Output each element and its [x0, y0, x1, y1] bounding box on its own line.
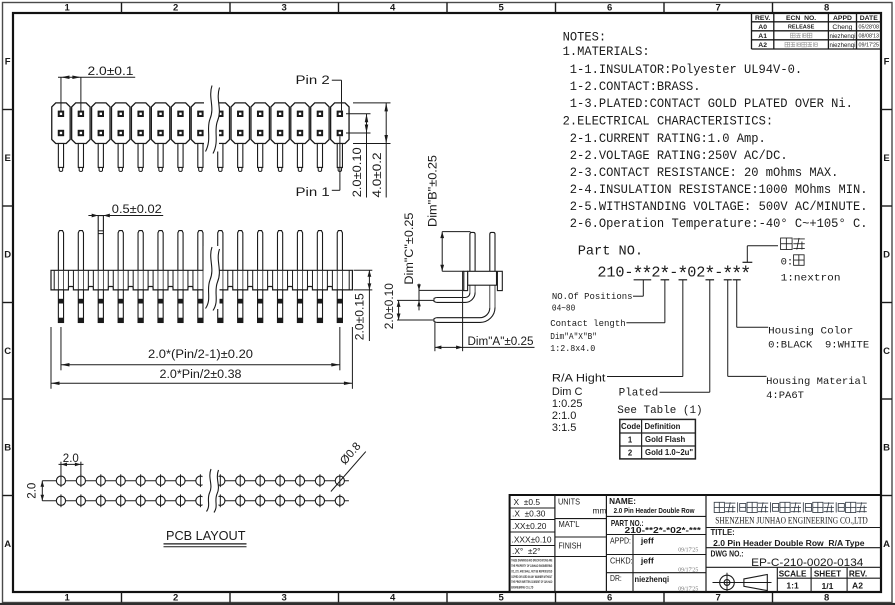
plated code table	[620, 419, 696, 459]
svg-text:2.0 Pin Header Double Row: 2.0 Pin Header Double Row	[614, 508, 695, 515]
leader Contact length	[626, 280, 669, 323]
svg-text:210-**2*-*02*-***: 210-**2*-*02*-***	[625, 526, 703, 535]
pin header top view body (15 positions)	[52, 103, 349, 144]
leader Housing Material	[724, 280, 767, 377]
svg-text:A: A	[4, 539, 11, 550]
svg-text:2-1.CURRENT RATING:1.0 Amp.: 2-1.CURRENT RATING:1.0 Amp.	[570, 131, 766, 146]
svg-text:4.0±0.2: 4.0±0.2	[372, 153, 384, 198]
svg-text:jeff: jeff	[640, 556, 654, 566]
dimension 2.0±0.10 (row spacing, top view right)	[346, 114, 371, 198]
svg-text:Gold 1.0~2u": Gold 1.0~2u"	[645, 448, 693, 457]
svg-text:.X° ±2°: .X° ±2°	[512, 546, 541, 556]
dimension Dim C ±0.25 (right-angle height)	[404, 213, 464, 311]
dimension 2.0 (row spacing)	[27, 481, 45, 501]
svg-text:Code: Code	[621, 422, 641, 431]
svg-text:1: 1	[628, 435, 633, 444]
svg-text:1: 1	[65, 593, 71, 604]
front view break lines	[204, 246, 220, 311]
svg-text:4:PA6T: 4:PA6T	[766, 390, 804, 402]
svg-text:3: 3	[282, 593, 287, 604]
projection symbol	[713, 573, 772, 592]
svg-text:niezhenqi: niezhenqi	[829, 33, 855, 40]
svg-text:A: A	[883, 539, 890, 550]
label Contact length Dim A X B	[550, 318, 625, 354]
svg-text:2-2.VOLTAGE RATING:250V AC/DC.: 2-2.VOLTAGE RATING:250V AC/DC.	[570, 148, 788, 163]
svg-text:RELEASE: RELEASE	[788, 25, 815, 31]
svg-text:COPIED OR USED IN ANY MANNER W: COPIED OR USED IN ANY MANNER WITHOUT	[511, 575, 552, 579]
svg-text:EP-C-210-0020-0134: EP-C-210-0020-0134	[751, 557, 863, 569]
svg-text:2.ELECTRICAL CHARACTERISTICS:: 2.ELECTRICAL CHARACTERISTICS:	[563, 113, 774, 128]
svg-text:MAT'L: MAT'L	[559, 520, 580, 529]
svg-text:2.0±0.10: 2.0±0.10	[384, 283, 396, 329]
dimension 0.5±0.02 (pin width)	[88, 204, 163, 217]
svg-text:1-2.CONTACT:BRASS.: 1-2.CONTACT:BRASS.	[570, 79, 701, 94]
svg-text:0: 0	[615, 263, 624, 281]
side view insulator body profile	[464, 271, 503, 290]
svg-text:.X ±0.30: .X ±0.30	[512, 509, 546, 519]
svg-text:A2: A2	[852, 581, 863, 591]
dimension 2.0*(Pin/2-1)±0.20	[61, 327, 340, 370]
label Pin 1 with leader	[296, 136, 340, 199]
svg-text:2-3.CONTACT RESISTANCE: 20 mOh: 2-3.CONTACT RESISTANCE: 20 mOhms MAX.	[570, 165, 839, 180]
svg-text:2-6.Operation Temperature:-40°: 2-6.Operation Temperature:-40° C~+105° C…	[570, 216, 868, 231]
svg-text:SHENZHEN JUNHAO ENGINEERING CO: SHENZHEN JUNHAO ENGINEERING CO.,LTD	[715, 517, 868, 527]
dimension 2.0±0.10 (tail spacing, side view)	[384, 283, 434, 329]
label Pin 2 with leader	[296, 75, 342, 110]
svg-text:CHKD:: CHKD:	[610, 555, 633, 565]
svg-text:Dim"A"±0.25: Dim"A"±0.25	[468, 336, 534, 348]
svg-text:F: F	[5, 57, 11, 68]
units matl finish cells	[558, 497, 606, 550]
svg-text:Dim C: Dim C	[552, 386, 583, 398]
svg-text:Gold Flash: Gold Flash	[645, 435, 686, 444]
svg-text:.XXX±0.10: .XXX±0.10	[512, 534, 552, 544]
svg-text:THE PRIOR WRITTEN CONSENT OF J: THE PRIOR WRITTEN CONSENT OF JUN HAO	[511, 580, 552, 584]
svg-text:1-3.PLATED:CONTACT GOLD PLATED: 1-3.PLATED:CONTACT GOLD PLATED OVER Ni.	[570, 96, 853, 111]
side view upper bent tail pin	[434, 292, 475, 302]
svg-text:2-4.INSULATION RESISTANCE:1000: 2-4.INSULATION RESISTANCE:1000 MOhms MIN…	[570, 182, 868, 197]
svg-text:Cheng: Cheng	[832, 24, 852, 31]
leader Ø0.8 (hole diameter)	[331, 440, 366, 491]
scale sheet rev cells	[779, 569, 867, 591]
leader NO.Of Positions	[633, 280, 651, 296]
svg-text:D: D	[883, 250, 890, 261]
svg-text:CO.,LTD. AND SHALL NOT BE REPR: CO.,LTD. AND SHALL NOT BE REPRODUCED	[511, 569, 552, 573]
svg-text:E: E	[5, 153, 11, 164]
title block grid	[510, 495, 881, 592]
svg-text:mm: mm	[593, 505, 607, 515]
svg-text:1:2.8x4.0: 1:2.8x4.0	[550, 343, 595, 354]
svg-text:09/17'25: 09/17'25	[678, 586, 698, 592]
leader mark type (CJK)	[743, 246, 779, 262]
svg-text:ENGINEERING CO.,LTD: ENGINEERING CO.,LTD	[511, 585, 533, 589]
svg-text:Housing Material: Housing Material	[766, 376, 867, 388]
svg-text:ECN NO.: ECN NO.	[786, 15, 816, 22]
svg-text:APPD:: APPD:	[610, 535, 631, 545]
svg-text:C: C	[883, 346, 890, 357]
svg-text:C: C	[4, 346, 11, 357]
svg-text:Dim"B"±0.25: Dim"B"±0.25	[428, 155, 440, 227]
svg-text:niezhenqi: niezhenqi	[829, 42, 855, 49]
disclaimer small print	[511, 559, 552, 590]
svg-text:2:1.0: 2:1.0	[552, 410, 576, 422]
svg-text:2.0: 2.0	[63, 453, 79, 465]
leader Plated	[660, 280, 715, 392]
svg-text:1/1: 1/1	[822, 581, 834, 591]
svg-text:*: *	[740, 264, 751, 286]
svg-text:1:nextron: 1:nextron	[781, 273, 841, 285]
svg-text:4: 4	[390, 3, 396, 14]
svg-text:08/08'13: 08/08'13	[858, 34, 879, 40]
svg-text:APPD: APPD	[833, 15, 852, 22]
svg-text:0.5±0.02: 0.5±0.02	[112, 204, 162, 216]
svg-text:09/17'25: 09/17'25	[858, 43, 879, 49]
svg-text:1.MATERIALS:: 1.MATERIALS:	[563, 44, 650, 59]
svg-text:NO.Of Positions: NO.Of Positions	[552, 291, 633, 302]
dimension 4.0±0.2 (body width, top view right)	[353, 103, 391, 198]
svg-text:R/A Hight: R/A Hight	[552, 372, 606, 384]
name part appd chkd dr cells	[609, 497, 702, 592]
dimension Dim B ±0.25 (pin length above body)	[428, 155, 471, 271]
svg-text:Housing Color: Housing Color	[768, 326, 853, 338]
top view break lines	[204, 85, 220, 154]
dimension 2.0*Pin/2±0.38	[51, 327, 352, 389]
svg-text:UNITS: UNITS	[558, 497, 580, 506]
svg-text:REV.: REV.	[755, 15, 770, 22]
company name (CJK)	[714, 502, 867, 512]
svg-text:09/17'25: 09/17'25	[678, 567, 698, 573]
svg-text:E: E	[883, 153, 889, 164]
svg-text:jeff: jeff	[640, 536, 654, 546]
svg-text:Definition: Definition	[645, 422, 681, 431]
svg-text:7: 7	[716, 593, 721, 604]
side view vertical pins	[470, 232, 495, 271]
svg-text:Plated: Plated	[619, 387, 659, 399]
svg-text:6: 6	[607, 593, 612, 604]
svg-text:4: 4	[390, 593, 396, 604]
label R/A Hight Dim C options	[552, 372, 606, 434]
label mark type options (CJK)	[781, 238, 841, 285]
svg-text:09/17'25: 09/17'25	[678, 548, 698, 554]
pcb layout break lines	[203, 469, 219, 513]
svg-text:TITLE:: TITLE:	[711, 528, 735, 537]
svg-text:04~80: 04~80	[552, 303, 575, 314]
label Housing Color	[768, 326, 869, 352]
svg-text:2.0±0.15: 2.0±0.15	[354, 293, 366, 340]
svg-text:2.0*(Pin/2-1)±0.20: 2.0*(Pin/2-1)±0.20	[148, 349, 253, 361]
svg-text:2-5.WITHSTANDING VOLTAGE: 500V: 2-5.WITHSTANDING VOLTAGE: 500V AC/MINUTE…	[570, 199, 868, 214]
svg-text:SCALE: SCALE	[779, 569, 807, 578]
svg-text:A2: A2	[758, 42, 767, 49]
svg-text:DR:: DR:	[610, 573, 622, 583]
top view pins below body	[58, 144, 342, 172]
dimension 2.0±0.1 (pitch, top view)	[58, 66, 135, 112]
svg-text:Part NO.: Part NO.	[578, 243, 643, 259]
top view contact squares	[58, 111, 343, 137]
svg-text:5: 5	[499, 3, 505, 14]
notes text block	[563, 29, 868, 231]
svg-text:Dim"C"±0.25: Dim"C"±0.25	[404, 213, 416, 285]
svg-text:0:: 0:	[781, 257, 794, 269]
svg-text:D: D	[4, 250, 11, 261]
svg-text:NAME:: NAME:	[609, 497, 636, 506]
svg-text:B: B	[883, 443, 890, 454]
front view insulator body with notches	[51, 270, 352, 290]
svg-text:1: 1	[65, 3, 71, 14]
label NO.Of Positions 04~80	[552, 291, 633, 314]
svg-text:5: 5	[499, 593, 505, 604]
svg-text:A1: A1	[758, 33, 767, 40]
svg-text:DATE: DATE	[860, 15, 878, 22]
pcb layout hole rows	[42, 474, 349, 507]
svg-text:THESE DRAWINGS AND SPECIFICATI: THESE DRAWINGS AND SPECIFICATIONS ARE	[511, 559, 552, 563]
dimension Dim A ±0.25 (tail length)	[435, 271, 535, 351]
svg-text:2.0±0.1: 2.0±0.1	[88, 66, 134, 78]
dwg no cell	[711, 549, 864, 568]
svg-text:Dim"A"X"B": Dim"A"X"B"	[550, 331, 597, 342]
svg-text:1:0.25: 1:0.25	[552, 398, 583, 410]
svg-text:2.0 Pin Header Double Row R/A: 2.0 Pin Header Double Row R/A Type	[713, 539, 865, 548]
svg-text:1:1: 1:1	[786, 581, 799, 591]
side view pin lines through body	[470, 271, 495, 308]
svg-text:7: 7	[716, 3, 721, 14]
svg-text:2: 2	[173, 3, 178, 14]
svg-text:0: 0	[687, 263, 696, 281]
svg-text:NOTES:: NOTES:	[563, 29, 607, 44]
svg-text:05/28'08: 05/28'08	[858, 25, 879, 31]
svg-text:8: 8	[824, 3, 829, 14]
front view upper pins	[58, 216, 342, 271]
svg-text:SHEET: SHEET	[814, 569, 841, 578]
dimension 2.0±0.15 (body height, front view right)	[354, 270, 373, 341]
svg-text:DWG NO.:: DWG NO.:	[711, 549, 744, 558]
svg-text:6: 6	[607, 3, 612, 14]
svg-text:X ±0.5: X ±0.5	[514, 497, 541, 507]
svg-text:A0: A0	[758, 24, 767, 31]
svg-text:3:1.5: 3:1.5	[552, 422, 576, 434]
svg-text:2: 2	[173, 593, 178, 604]
label Plated See Table (1)	[617, 387, 702, 417]
label PCB LAYOUT	[164, 529, 247, 547]
front view lower solder pins	[58, 290, 342, 323]
svg-text:niezhenqi: niezhenqi	[635, 574, 670, 584]
svg-text:2: 2	[628, 448, 633, 457]
svg-text:THE PROPERTY OF JUNHAO ENGINEE: THE PROPERTY OF JUNHAO ENGINEERING	[511, 564, 552, 568]
svg-text:FINISH: FINISH	[559, 542, 582, 551]
svg-text:1: 1	[606, 263, 615, 281]
side view lower bent tail pin	[434, 308, 495, 323]
revision table	[752, 13, 882, 49]
leader Housing Color	[733, 280, 768, 328]
label Housing Material	[766, 376, 867, 402]
svg-text:2.0*Pin/2±0.38: 2.0*Pin/2±0.38	[160, 369, 242, 381]
svg-text:F: F	[884, 57, 890, 68]
svg-text:2: 2	[597, 263, 606, 281]
svg-text:Contact length: Contact length	[550, 318, 625, 329]
svg-text:2.0±0.10: 2.0±0.10	[352, 147, 364, 197]
svg-text:.XX±0.20: .XX±0.20	[512, 521, 547, 531]
svg-text:3: 3	[282, 3, 287, 14]
svg-text:8: 8	[824, 593, 829, 604]
svg-text:PCB LAYOUT: PCB LAYOUT	[166, 529, 246, 543]
svg-text:Pin 1: Pin 1	[296, 187, 330, 199]
svg-text:B: B	[4, 443, 11, 454]
svg-text:REV.: REV.	[849, 569, 867, 578]
svg-text:1-1.INSULATOR:Polyester UL94V-: 1-1.INSULATOR:Polyester UL94V-0.	[570, 62, 802, 77]
tolerance column	[512, 497, 552, 556]
dimension 2.0 (hole pitch)	[59, 453, 84, 475]
title cell	[711, 528, 866, 548]
svg-text:See Table (1): See Table (1)	[617, 405, 702, 417]
svg-text:2.0: 2.0	[27, 483, 39, 499]
leader R/A Hight	[607, 280, 687, 377]
svg-text:0:BLACK 9:WHITE: 0:BLACK 9:WHITE	[768, 340, 869, 352]
svg-text:Pin 2: Pin 2	[296, 75, 330, 87]
